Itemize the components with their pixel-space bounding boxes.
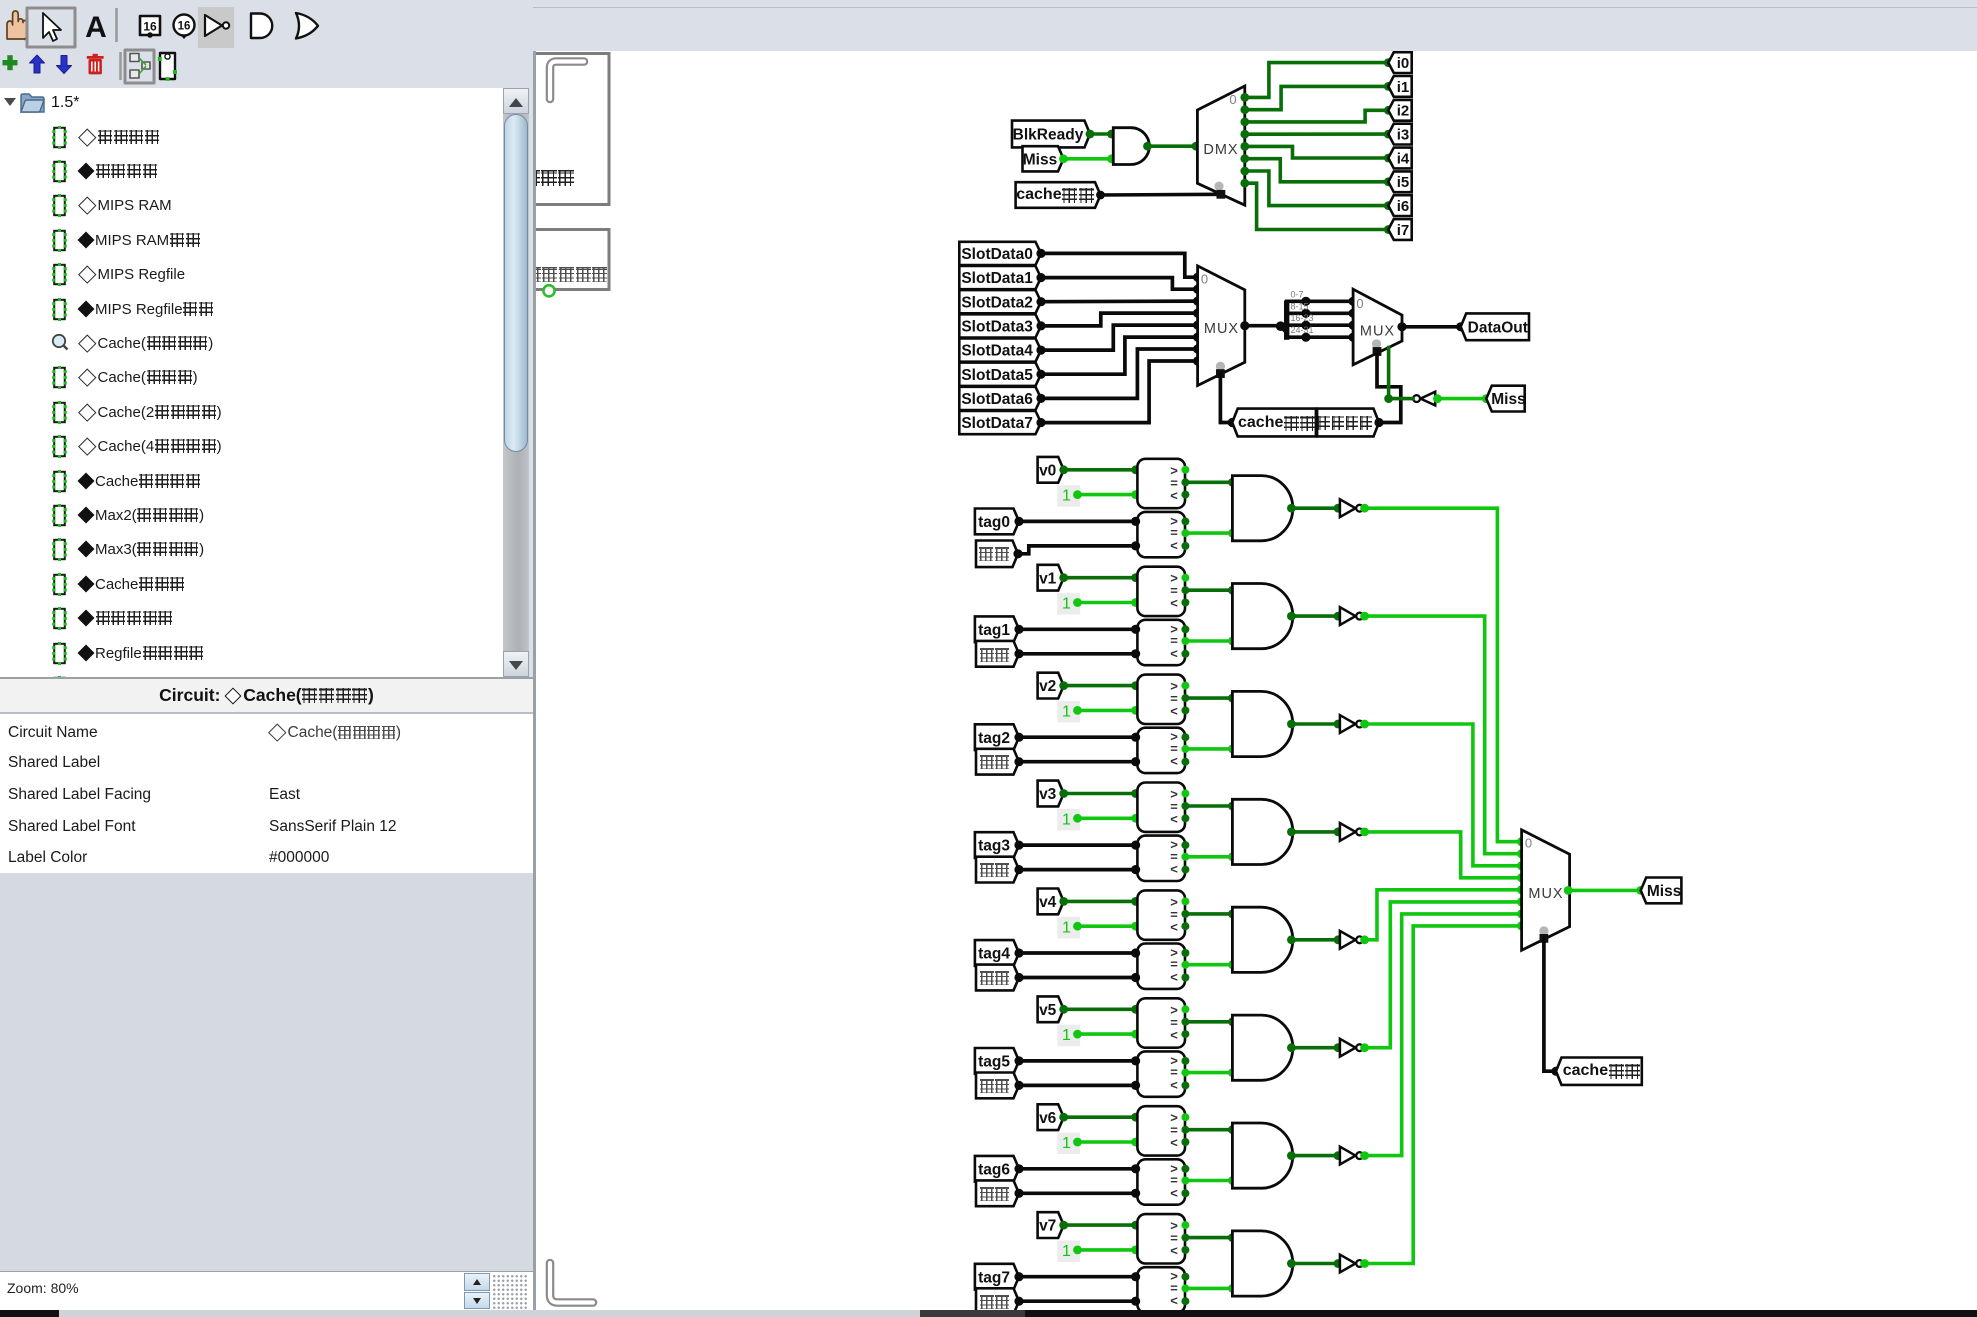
wire tag2 to comparator (1019, 735, 1137, 739)
explorer tree (0, 88, 503, 677)
inverter N3 (row 3) (1340, 823, 1356, 841)
wire and-out row4 (1293, 938, 1340, 942)
wire v1 to comparator (1064, 576, 1138, 580)
wire 标志 row5 to comparator (1019, 1084, 1137, 1088)
inverter U2 (Miss invert, faces left) (1421, 392, 1436, 406)
tunnel i7 (1388, 219, 1411, 240)
subcircuit box 引脚区 (clipped at canvas edge) (500, 54, 609, 205)
wire tag4 to comparator (1019, 951, 1137, 955)
constant 1 (row 7) (1057, 1241, 1080, 1263)
tunnel 标志 row4 (976, 965, 1019, 991)
tunnel 标志 row1 (976, 641, 1019, 667)
constant 1 (row 6) (1057, 1133, 1080, 1155)
multiplexer MUX2 (byte select) (1353, 289, 1402, 365)
wire and-out row3 (1293, 830, 1340, 834)
wire SlotData2 to MUX1 in2 (1041, 299, 1198, 303)
tunnel i2 (1388, 100, 1411, 121)
wire tag3 to comparator (1019, 843, 1137, 847)
wire const1 to comparator (row 2) (1078, 709, 1138, 713)
wire tag0 to comparator (1019, 520, 1137, 524)
wire DMX out2 to i2 (1245, 110, 1389, 122)
wire const1 to comparator (row 5) (1078, 1032, 1138, 1036)
and-gate A0 (row 0) (1232, 476, 1292, 541)
wire MUX3 select (1544, 938, 1556, 1071)
input pin icon (140, 16, 160, 35)
wire const1 to comparator (row 1) (1078, 601, 1138, 605)
wire DMX out6 to i6 (1245, 171, 1389, 206)
wire and-out row6 (1293, 1154, 1340, 1158)
appearance edit button (chip) (160, 53, 175, 79)
tunnel tag7 (975, 1264, 1019, 1290)
wire tag1 to comparator (1019, 627, 1137, 631)
wire v7 to comparator (1064, 1223, 1138, 1227)
wire splitter branch 8-15 (1287, 311, 1353, 315)
splitter SP1 (32-bit to 4x8) (1281, 326, 1287, 331)
wire 标志 row3 to comparator (1019, 868, 1137, 872)
tunnel tag5 (975, 1048, 1019, 1074)
add circuit button (3, 60, 18, 65)
tunnel 标志 row7 (976, 1288, 1019, 1314)
and-gate A4 (row 4) (1232, 907, 1292, 972)
tunnel SlotData1 (959, 266, 1041, 289)
wire eq-b row7 (1185, 1287, 1232, 1291)
tunnel tag1 (975, 616, 1019, 642)
wire 标志 row2 to comparator (1019, 760, 1137, 764)
tunnel DataOut (1461, 313, 1529, 340)
wire row7 to MUX3 in7 (1363, 926, 1521, 1264)
tunnel v1 (1038, 565, 1064, 591)
tunnel v2 (1038, 673, 1064, 699)
tunnel v0 (1038, 457, 1064, 483)
OR gate tool (296, 13, 318, 39)
tunnel 标志 row6 (976, 1180, 1019, 1206)
and-gate A7 (row 7) (1232, 1231, 1292, 1296)
wire byte addr to MUX2 select (1377, 352, 1401, 423)
wire MUX3 out (1570, 889, 1641, 893)
inverter N7 (row 7) (1340, 1255, 1356, 1273)
wire DMX out5 to i5 (1245, 159, 1389, 182)
wire splitter branch 16-23 (1287, 323, 1353, 327)
wire 标志 row1 to comparator (1019, 652, 1137, 656)
wire row5 to MUX3 in5 (1363, 902, 1521, 1048)
and-gate A6 (row 6) (1232, 1123, 1292, 1188)
wire eq-a row1 (1185, 588, 1232, 592)
left filler (0, 873, 533, 1271)
comparator CMP6b (tag6 vs 标志) (1137, 1159, 1185, 1204)
wire eq-b row0 (1185, 531, 1232, 535)
wire inverter to MUX2 enable (1389, 348, 1413, 399)
and-gate A2 (row 2) (1232, 691, 1292, 756)
wire const1 to comparator (row 7) (1078, 1248, 1138, 1252)
and-gate A3 (row 3) (1232, 799, 1292, 864)
property panel (0, 677, 533, 679)
wire eq-b row4 (1185, 963, 1232, 967)
wire eq-b row1 (1185, 639, 1232, 643)
bottom strip (0, 1310, 1977, 1317)
inverter N0 (row 0) (1340, 499, 1356, 517)
tunnel Miss (bottom) (1641, 878, 1682, 904)
constant 1 (row 3) (1057, 809, 1080, 831)
tunnel i4 (1388, 148, 1411, 169)
NOT gate tool (selected) (198, 7, 234, 48)
tunnel 标志 row3 (976, 857, 1019, 883)
wire row6 to MUX3 in6 (1363, 914, 1521, 1156)
wire splitter branch 0-7 (1287, 299, 1353, 303)
tunnel tag0 (975, 509, 1019, 535)
wire eq-a row7 (1185, 1236, 1232, 1240)
separator (119, 52, 122, 80)
tunnel tag3 (975, 832, 1019, 858)
wire DMX out4 to i4 (1245, 146, 1389, 158)
wire SlotData5 to MUX1 in5 (1041, 337, 1198, 374)
comparator CMP1b (tag1 vs 标志) (1137, 620, 1185, 665)
tunnel 标志 row0 (976, 541, 1018, 568)
wire 标志 row7 to comparator (1019, 1299, 1137, 1303)
wire Miss to inverter (1436, 397, 1486, 401)
comparator CMP5a (v5 vs 1) (1137, 998, 1185, 1047)
constant 1 (row 1) (1057, 593, 1080, 615)
svg-text:16: 16 (178, 21, 191, 33)
comparator CMP0b (tag0 vs 标志) (1137, 512, 1185, 557)
toolbar background (0, 0, 1977, 51)
move down button (57, 56, 72, 74)
wire SlotData7 to MUX1 in7 (1041, 361, 1198, 423)
multiplexer MUX1 (slot select) (1198, 266, 1245, 386)
wire const1 to comparator (row 3) (1078, 816, 1138, 820)
tunnel SlotData4 (959, 339, 1041, 362)
separator (115, 8, 118, 42)
wire eq-a row2 (1185, 696, 1232, 700)
tunnel v7 (1038, 1212, 1064, 1238)
wire tag7 to comparator (1019, 1275, 1137, 1279)
tree scrollbar (503, 88, 529, 677)
wire DMX out3 to i3 (1245, 132, 1389, 136)
inverter N1 (row 1) (1340, 607, 1356, 625)
tunnel cache地址 (mid) (1232, 409, 1316, 437)
wire eq-b row2 (1185, 747, 1232, 751)
tunnel Miss (mid) (1486, 386, 1524, 412)
move up button (30, 55, 45, 73)
wire const1 to comparator (row 0) (1078, 493, 1138, 497)
circuit text overlays (536, 0, 1977, 1310)
tunnel SlotData0 (959, 242, 1041, 265)
wire DMX out7 to i7 (1245, 183, 1389, 229)
tunnel 块内地址 (mid) (1317, 409, 1379, 437)
tunnel v3 (1038, 781, 1064, 807)
wire v6 to comparator (1064, 1115, 1138, 1119)
tunnel SlotData7 (959, 411, 1041, 434)
tunnel SlotData5 (959, 363, 1041, 386)
inverter N6 (row 6) (1340, 1147, 1356, 1165)
tunnel i1 (1388, 76, 1411, 97)
tunnel Miss (input to AND) (1023, 146, 1064, 171)
wire v4 to comparator (1064, 900, 1138, 904)
subcircuit box 选择部件 (clipped at canvas edge) (500, 230, 609, 290)
wire Miss to AND (1064, 157, 1114, 161)
constant 1 (row 2) (1057, 701, 1080, 723)
wire AND out to DMX sel (1149, 144, 1196, 148)
AND gate tool (251, 14, 272, 39)
wire 标志 row0 to comparator (1018, 546, 1137, 554)
wire eq-a row0 (1185, 480, 1232, 484)
wire row0 to MUX3 in0 (1363, 508, 1521, 842)
corner mark bottom-left (550, 1263, 593, 1303)
tunnel i0 (1388, 52, 1411, 73)
pin circle on box (543, 285, 554, 296)
wire 标志 row6 to comparator (1019, 1191, 1137, 1195)
wire MUX1 out (1245, 324, 1287, 328)
tunnel 标志 row2 (976, 749, 1019, 775)
tunnel tag6 (975, 1156, 1019, 1182)
comparator CMP1a (v1 vs 1) (1137, 567, 1185, 616)
delete circuit button (trash) (89, 59, 102, 74)
constant 1 (row 5) (1057, 1025, 1080, 1047)
comparator CMP6a (v6 vs 1) (1137, 1106, 1185, 1155)
comparator CMP3b (tag3 vs 标志) (1137, 836, 1185, 881)
wire tag5 to comparator (1019, 1059, 1137, 1063)
wire BlkReady to AND (1090, 132, 1113, 136)
wire DMX out1 to i1 (1245, 86, 1389, 109)
inverter N2 (row 2) (1340, 715, 1356, 733)
wire and-out row0 (1293, 506, 1340, 510)
wire DMX out0 to i0 (1245, 63, 1389, 98)
tunnel cache地址 (bottom) (1556, 1058, 1642, 1085)
tunnel 标志 row5 (976, 1073, 1019, 1099)
comparator CMP2a (v2 vs 1) (1137, 675, 1185, 724)
tunnel tag4 (975, 940, 1019, 966)
output pin icon (174, 15, 195, 36)
wire MUX2 out (1402, 325, 1461, 329)
wire MUX1 select down (1220, 374, 1232, 423)
inverter N5 (row 5) (1340, 1039, 1356, 1057)
comparator CMP0a (v0 vs 1) (1137, 459, 1185, 508)
wire tag6 to comparator (1019, 1167, 1137, 1171)
comparator CMP5b (tag5 vs 标志) (1137, 1051, 1185, 1096)
wire cache addr to DMX select (1101, 193, 1221, 197)
wire SlotData4 to MUX1 in4 (1041, 325, 1198, 350)
and-gate A5 (row 5) (1232, 1015, 1292, 1080)
comparator CMP3a (v3 vs 1) (1137, 783, 1185, 832)
tunnel i6 (1388, 195, 1411, 216)
corner mark top-left (550, 62, 584, 100)
hierarchy view button (selected) (125, 50, 154, 83)
poke tool (hand) (7, 11, 28, 40)
wire eq-a row5 (1185, 1020, 1232, 1024)
canvas (536, 51, 1977, 1310)
tunnel cache地址 (top) (1016, 182, 1101, 208)
svg-text:16: 16 (143, 20, 157, 34)
tunnel SlotData3 (959, 314, 1041, 337)
left panel toolbars (0, 0, 533, 88)
wire SlotData3 to MUX1 in3 (1041, 313, 1198, 326)
wire v0 to comparator (1064, 468, 1138, 472)
wire v2 to comparator (1064, 684, 1138, 688)
and-gate U1 (BlkReady AND Miss) (1113, 128, 1149, 165)
wire v5 to comparator (1064, 1007, 1138, 1011)
wire 标志 row4 to comparator (1019, 976, 1137, 980)
wire row4 to MUX3 in4 (1363, 890, 1521, 940)
and-gate A1 (row 1) (1232, 584, 1292, 649)
wire row1 to MUX3 in1 (1363, 616, 1521, 854)
wire eq-b row3 (1185, 855, 1232, 859)
zoom bar (0, 1271, 533, 1311)
wire eq-a row3 (1185, 804, 1232, 808)
wire and-out row5 (1293, 1046, 1340, 1050)
comparator CMP2b (tag2 vs 标志) (1137, 728, 1185, 773)
edit tool (selected) (27, 8, 75, 47)
wire and-out row1 (1293, 614, 1340, 618)
wire eq-a row4 (1185, 912, 1232, 916)
tunnel SlotData2 (959, 290, 1041, 313)
tunnel tag2 (975, 724, 1019, 750)
constant 1 (row 0) (1057, 485, 1080, 507)
wire v3 to comparator (1064, 792, 1138, 796)
wire const1 to comparator (row 6) (1078, 1140, 1138, 1144)
wire eq-b row5 (1185, 1071, 1232, 1075)
wire and-out row7 (1293, 1262, 1340, 1266)
wire row3 to MUX3 in3 (1363, 832, 1521, 878)
inverter N4 (row 4) (1340, 931, 1356, 949)
wire eq-b row6 (1185, 1179, 1232, 1183)
wire eq-a row6 (1185, 1128, 1232, 1132)
multiplexer MUX3 (miss select) (1522, 830, 1570, 950)
tunnel v6 (1038, 1104, 1064, 1130)
comparator CMP7b (tag7 vs 标志) (1137, 1267, 1185, 1312)
tunnel i5 (1388, 171, 1411, 192)
tunnel SlotData6 (959, 387, 1041, 410)
wire splitter branch 24-31 (1287, 335, 1353, 339)
wire row2 to MUX3 in2 (1363, 724, 1521, 866)
comparator CMP4a (v4 vs 1) (1137, 890, 1185, 939)
tunnel BlkReady (1012, 121, 1090, 148)
tunnel i3 (1388, 124, 1411, 145)
tunnel v5 (1038, 996, 1064, 1022)
tunnel v4 (1038, 889, 1064, 915)
comparator CMP4b (tag4 vs 标志) (1137, 944, 1185, 989)
wire and-out row2 (1293, 722, 1340, 726)
comparator CMP7a (v7 vs 1) (1137, 1214, 1185, 1263)
wire SlotData1 to MUX1 in1 (1041, 278, 1198, 290)
constant 1 (row 4) (1057, 917, 1080, 939)
wire SlotData6 to MUX1 in6 (1041, 349, 1198, 398)
wire SlotData0 to MUX1 in0 (1041, 253, 1198, 277)
wire const1 to comparator (row 4) (1078, 924, 1138, 928)
demux DMX (1197, 86, 1244, 205)
svg-text:A: A (85, 11, 107, 44)
